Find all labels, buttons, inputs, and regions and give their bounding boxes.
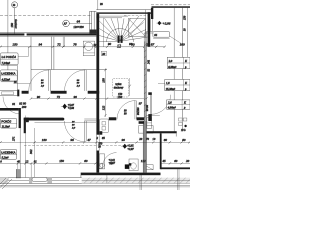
svg-text:90: 90: [74, 95, 78, 99]
svg-text:120+330: 120+330: [73, 26, 84, 29]
corridor dim line y=98.6: [31, 98, 146, 100]
vertical dim x=105.4: [104, 68, 106, 117]
roof hatch dashed box: [112, 79, 128, 98]
svg-text:150: 150: [184, 15, 187, 20]
svg-text:90: 90: [108, 42, 112, 46]
dark jamb: [17, 90, 19, 97]
level marker bathroom: [123, 144, 127, 149]
label box D: [0, 149, 16, 159]
wall jog top-right: [151, 8, 153, 19]
right-center wall: [144, 41, 146, 121]
svg-text:90: 90: [37, 95, 41, 99]
wall segment between doors: [51, 91, 67, 94]
dashed axis line top-left: [0, 15, 91, 17]
svg-text:60: 60: [84, 159, 88, 163]
label box 0 right: [153, 32, 170, 38]
stair upper flight X-box: [129, 19, 146, 37]
left corner wall: [24, 118, 26, 134]
small boxed 20: [101, 51, 106, 56]
label box 2 right: [165, 79, 190, 90]
WC fixture left: [99, 154, 104, 169]
label box 3 right: [167, 100, 190, 109]
svg-text:+2,97: +2,97: [127, 148, 134, 151]
svg-text:150: 150: [101, 78, 105, 83]
dim drop lines: [17, 163, 19, 177]
bottom hatched band right: [82, 178, 190, 184]
fixture box: [139, 126, 154, 134]
wall segment right: [88, 91, 100, 94]
svg-text:90: 90: [129, 42, 133, 46]
bottom right room left wall: [160, 133, 162, 169]
svg-text:94: 94: [39, 42, 43, 46]
svg-text:80: 80: [182, 138, 186, 142]
door 45 arc: [64, 121, 85, 142]
svg-text:1,8: 1,8: [166, 81, 170, 85]
right edge wall lines: [181, 8, 183, 132]
svg-text:90 90: 90 90: [146, 104, 149, 111]
svg-text:45: 45: [162, 159, 166, 163]
svg-text:20: 20: [102, 52, 106, 56]
washbasin fixture: [83, 41, 94, 56]
wall stub left room: [0, 108, 19, 111]
stair walking line arc: [107, 29, 134, 42]
door D arc: [3, 97, 21, 115]
svg-text:POKÓJ: POKÓJ: [1, 118, 11, 123]
radiator symbols right: [179, 118, 183, 121]
axis stem: [14, 8, 16, 34]
door F jambs: [148, 92, 152, 95]
svg-text:91: 91: [12, 102, 16, 106]
door B leaf: [83, 70, 85, 91]
svg-text:15,38m²: 15,38m²: [166, 87, 176, 91]
corner hatch: [0, 178, 12, 189]
stair right wall: [148, 12, 151, 46]
label box B: [0, 70, 17, 81]
dim line A y=46.8: [0, 46, 165, 48]
svg-text:122: 122: [141, 159, 146, 163]
svg-text:78: 78: [73, 42, 77, 46]
level marker +2.86: [158, 21, 162, 25]
stair fan treads: [99, 16, 147, 41]
svg-text:302: 302: [29, 149, 33, 154]
svg-text:Ł4 POKÓJ: Ł4 POKÓJ: [2, 54, 17, 59]
svg-text:6,38m²: 6,38m²: [168, 65, 176, 69]
svg-text:241: 241: [148, 59, 151, 64]
box A leader: [18, 47, 28, 56]
door C arc: [29, 70, 50, 91]
svg-text:96: 96: [71, 138, 75, 142]
axis circle A7: [63, 20, 70, 27]
svg-text:ŁAZIENKA: ŁAZIENKA: [1, 72, 15, 76]
T wall bottom left: [16, 169, 20, 178]
extension lines: [62, 37, 64, 47]
top-right outer wall: [151, 4, 190, 6]
axis leader line: [69, 23, 91, 25]
svg-text:64: 64: [77, 20, 81, 24]
svg-text:150: 150: [10, 23, 14, 28]
svg-text:4,98m²: 4,98m²: [168, 106, 176, 110]
axis vertical line left: [7, 0, 9, 70]
bottom corridor wall dark: [81, 173, 161, 176]
svg-text:160: 160: [180, 42, 185, 46]
stair flight edge line: [102, 18, 104, 47]
wall segment right of door E: [109, 117, 117, 120]
svg-text:122: 122: [101, 105, 105, 110]
svg-text:87: 87: [151, 42, 155, 46]
svg-text:90/200: 90/200: [137, 107, 140, 115]
bottom right room bottom wall: [161, 167, 190, 169]
svg-text:271: 271: [12, 136, 16, 141]
door F arc: [151, 95, 171, 115]
WC fixture middle: [129, 159, 138, 171]
floor line right: [147, 115, 160, 117]
line above stair wall: [97, 0, 99, 10]
svg-text:dachowy: dachowy: [114, 87, 124, 90]
svg-text:72: 72: [57, 42, 61, 46]
svg-text:12: 12: [25, 159, 29, 163]
svg-text:20: 20: [186, 159, 190, 163]
chimney by stair: [89, 11, 91, 33]
door C leaf: [48, 70, 50, 91]
black flue square: [125, 164, 130, 169]
svg-text:ŁAZIENKA: ŁAZIENKA: [1, 151, 15, 155]
dim line C y=142.3: [0, 141, 190, 143]
stairwell top wall: [96, 9, 151, 11]
svg-text:+2,86: +2,86: [68, 107, 75, 110]
label box 1 right: [167, 57, 190, 68]
vertical dim x=34.6: [34, 128, 36, 164]
level marker +5.07/+2.86: [63, 104, 67, 110]
svg-text:150: 150: [12, 42, 17, 46]
dashed line lower: [24, 145, 128, 147]
svg-text:150: 150: [118, 93, 123, 96]
svg-text:60: 60: [164, 138, 168, 142]
svg-text:47: 47: [87, 138, 91, 142]
svg-text:10 b: 10 b: [181, 129, 186, 132]
svg-text:2,6: 2,6: [168, 101, 172, 105]
svg-text:150: 150: [59, 159, 64, 163]
middle wall: [24, 118, 65, 121]
dashed axis stair: [124, 14, 151, 16]
wall segment: [22, 91, 29, 94]
shower box bathroom: [100, 119, 109, 133]
svg-text:200: 200: [22, 105, 27, 109]
door F leaf: [149, 95, 151, 115]
dim line D y=163.4: [0, 162, 96, 164]
label box A: [0, 53, 18, 65]
architectural floor plan 190x190: [0, 0, 190, 190]
bathroom east wall: [17, 66, 19, 90]
door B arc: [65, 70, 86, 91]
corridor south wall left framed part: [0, 90, 17, 92]
svg-text:12: 12: [117, 44, 121, 49]
axis circle B1: [12, 2, 18, 8]
svg-text:40: 40: [17, 159, 21, 163]
right room bottom wall: [146, 131, 176, 133]
upper partition between rooms: [51, 37, 53, 70]
top-left outer wall band: [0, 31, 96, 33]
svg-text:2,0: 2,0: [169, 59, 173, 63]
svg-text:72: 72: [57, 95, 61, 99]
label box C: [0, 118, 16, 128]
stair newel dark posts: [118, 35, 120, 43]
svg-text:150(300): 150(300): [15, 19, 18, 28]
box2 leader: [158, 82, 165, 84]
stairwell left wall: [96, 14, 99, 135]
lines to bottom edge: [139, 175, 141, 190]
leader 160: [170, 36, 182, 44]
corridor north wall: [31, 69, 107, 71]
door E leaf: [134, 101, 136, 120]
svg-text:97: 97: [139, 101, 143, 105]
vertical dim x=25.3: [24, 116, 26, 164]
lintel pill: [32, 177, 47, 181]
wall between bathrooms: [143, 121, 146, 173]
svg-text:60: 60: [174, 159, 178, 163]
small fixture: [144, 165, 153, 170]
svg-text:A7: A7: [63, 23, 68, 26]
svg-text:160: 160: [42, 138, 47, 142]
window gap top wall: [24, 33, 26, 36]
door 45 leaf: [83, 121, 85, 141]
door E arc: [117, 101, 136, 120]
partition bathroom/room: [30, 37, 32, 91]
vertical dim x=129.7: [129, 78, 131, 96]
svg-text:81: 81: [34, 159, 38, 163]
svg-text:90: 90: [122, 138, 126, 142]
box B leader: [14, 82, 31, 84]
bottom outer wall left part: [0, 177, 82, 179]
tall flue box: [147, 117, 152, 128]
door G arc: [103, 153, 117, 167]
